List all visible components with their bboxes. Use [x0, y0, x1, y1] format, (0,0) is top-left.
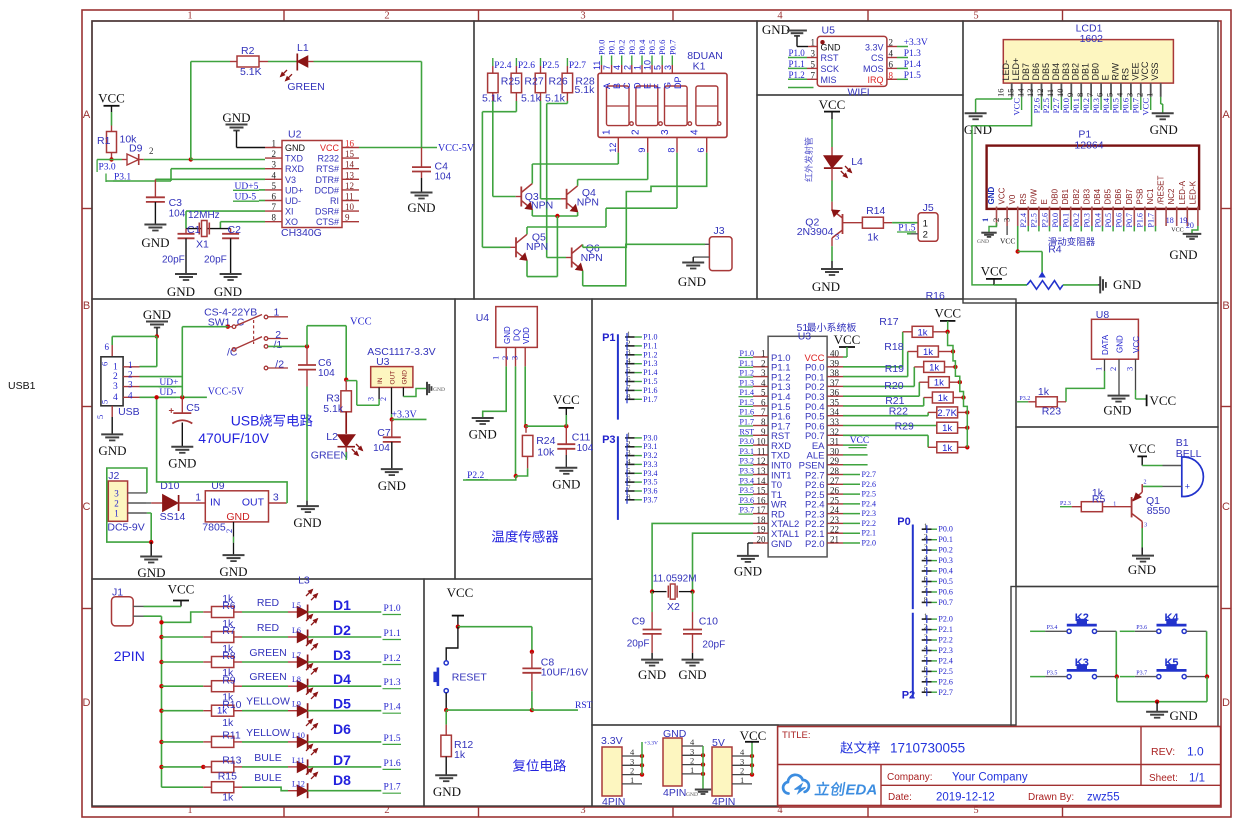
svg-text:P3.3: P3.3 — [643, 460, 657, 469]
svg-text:RS: RS — [1019, 193, 1028, 204]
svg-text:34: 34 — [830, 407, 840, 417]
svg-text:GND: GND — [977, 239, 989, 245]
svg-text:P0.1: P0.1 — [607, 40, 617, 55]
svg-text:DB6: DB6 — [1114, 188, 1123, 204]
svg-text:RED: RED — [257, 622, 280, 634]
svg-text:5: 5 — [95, 415, 105, 419]
svg-text:1602: 1602 — [1080, 33, 1104, 45]
svg-text:5.1K: 5.1K — [240, 66, 262, 78]
svg-text:P0.1: P0.1 — [1071, 98, 1081, 113]
svg-text:RI: RI — [330, 196, 339, 206]
svg-text:GND: GND — [1113, 277, 1141, 292]
svg-text:2: 2 — [272, 149, 277, 159]
svg-text:P0.2: P0.2 — [617, 40, 627, 55]
svg-text:P3.5: P3.5 — [643, 478, 657, 487]
svg-text:GND: GND — [987, 187, 996, 205]
svg-text:A: A — [83, 109, 91, 121]
svg-text:C: C — [1222, 501, 1230, 513]
svg-text:P2.0: P2.0 — [862, 539, 876, 548]
svg-text:P0.3: P0.3 — [1091, 98, 1101, 113]
svg-text:Date:: Date: — [888, 792, 912, 803]
svg-text:OUT: OUT — [242, 497, 265, 509]
svg-text:P0.4: P0.4 — [938, 567, 952, 576]
svg-text:38: 38 — [830, 368, 840, 378]
svg-text:RST: RST — [821, 53, 840, 63]
svg-text:2: 2 — [1108, 367, 1118, 371]
svg-text:DB3: DB3 — [1061, 63, 1071, 81]
svg-text:P0.0: P0.0 — [1061, 98, 1071, 113]
svg-text:VCC: VCC — [1141, 98, 1151, 116]
svg-text:X2: X2 — [667, 601, 680, 613]
svg-text:1k: 1k — [1038, 386, 1050, 398]
svg-text:L6: L6 — [292, 626, 301, 635]
svg-text:C5: C5 — [186, 402, 200, 414]
svg-text:3: 3 — [1001, 218, 1011, 222]
svg-text:DB2: DB2 — [1072, 188, 1081, 204]
svg-text:R7: R7 — [222, 625, 236, 637]
svg-text:P1.3: P1.3 — [643, 359, 657, 368]
svg-text:1k: 1k — [454, 749, 466, 761]
svg-text:24: 24 — [830, 505, 840, 515]
svg-text:GND: GND — [433, 784, 461, 799]
svg-text:P3.7: P3.7 — [1136, 670, 1147, 676]
svg-text:SCK: SCK — [821, 64, 840, 74]
svg-text:DB7: DB7 — [1021, 63, 1031, 81]
svg-text:GND: GND — [222, 110, 250, 125]
svg-text:D1: D1 — [333, 597, 351, 613]
svg-text:4PIN: 4PIN — [602, 796, 625, 808]
svg-text:2N3904: 2N3904 — [797, 226, 834, 238]
svg-text:28: 28 — [830, 466, 840, 476]
svg-text:P0.5: P0.5 — [647, 40, 657, 55]
svg-text:D2: D2 — [333, 622, 351, 638]
svg-text:P2.3: P2.3 — [1060, 501, 1071, 507]
svg-text:R16: R16 — [926, 290, 945, 302]
svg-text:4: 4 — [612, 65, 622, 70]
svg-text:5: 5 — [973, 805, 978, 816]
svg-text:1k: 1k — [867, 232, 879, 244]
svg-text:GND: GND — [771, 539, 792, 550]
svg-text:P0.7: P0.7 — [938, 598, 952, 607]
svg-text:RST: RST — [740, 427, 755, 436]
svg-text:Drawn By:: Drawn By: — [1028, 792, 1074, 803]
svg-text:P2.5: P2.5 — [938, 667, 952, 676]
svg-text:GND: GND — [433, 387, 445, 393]
svg-text:U4: U4 — [476, 312, 490, 324]
svg-text:L11: L11 — [292, 756, 305, 765]
svg-text:104: 104 — [169, 209, 186, 220]
svg-text:MIS: MIS — [821, 75, 837, 85]
svg-text:UD+: UD+ — [285, 185, 303, 195]
svg-text:VCC: VCC — [740, 728, 767, 743]
svg-text:zwz55: zwz55 — [1087, 792, 1120, 804]
svg-text:8: 8 — [761, 417, 766, 427]
svg-text:P2.0: P2.0 — [805, 539, 825, 550]
svg-text:VCC: VCC — [819, 97, 846, 112]
svg-text:R19: R19 — [885, 363, 904, 375]
svg-text:YELLOW: YELLOW — [246, 727, 290, 739]
svg-text:P1.4: P1.4 — [904, 60, 921, 70]
svg-text:1k: 1k — [923, 347, 933, 358]
svg-text:15: 15 — [345, 149, 355, 159]
svg-text:X1: X1 — [196, 239, 209, 251]
svg-text:P1.5: P1.5 — [904, 71, 921, 81]
svg-text:NPN: NPN — [581, 252, 603, 264]
svg-text:4: 4 — [761, 378, 766, 388]
svg-text:J2: J2 — [108, 470, 119, 482]
svg-text:P0.2: P0.2 — [1081, 98, 1091, 113]
svg-text:P1.3: P1.3 — [384, 678, 401, 688]
svg-text:/RESET: /RESET — [1157, 175, 1166, 204]
svg-text:VCC: VCC — [98, 91, 125, 106]
svg-text:P1.7: P1.7 — [643, 395, 657, 404]
svg-text:GND: GND — [168, 456, 196, 471]
svg-text:3: 3 — [1125, 367, 1135, 371]
svg-text:P2.4: P2.4 — [1019, 213, 1028, 227]
svg-text:P1.2: P1.2 — [643, 350, 657, 359]
svg-text:USB1: USB1 — [8, 380, 36, 392]
svg-text:104: 104 — [435, 172, 452, 183]
svg-text:P0.4: P0.4 — [1101, 97, 1111, 113]
svg-text:1: 1 — [690, 765, 694, 775]
svg-text:4PIN: 4PIN — [712, 796, 735, 808]
svg-text:1: 1 — [128, 360, 133, 370]
svg-text:P0.4: P0.4 — [637, 39, 647, 55]
svg-text:3.3V: 3.3V — [865, 42, 884, 52]
svg-text:3: 3 — [660, 129, 671, 135]
svg-text:BULE: BULE — [254, 752, 281, 764]
svg-text:+: + — [169, 406, 175, 417]
svg-text:P1.4: P1.4 — [384, 703, 401, 713]
svg-text:12864: 12864 — [1074, 140, 1103, 152]
svg-text:5.1k: 5.1k — [521, 93, 542, 105]
svg-text:+3.3V: +3.3V — [644, 741, 658, 747]
svg-text:22: 22 — [830, 525, 839, 535]
svg-text:8: 8 — [1075, 93, 1085, 97]
svg-text:5: 5 — [272, 181, 277, 191]
svg-text:37: 37 — [830, 378, 840, 388]
svg-text:DCD#: DCD# — [314, 185, 339, 195]
svg-text:GND: GND — [678, 274, 706, 289]
svg-text:R5: R5 — [1092, 494, 1106, 506]
svg-text:UD-: UD- — [285, 196, 301, 206]
svg-text:V0: V0 — [1008, 194, 1017, 204]
svg-text:15: 15 — [1005, 89, 1015, 98]
svg-text:P0.0: P0.0 — [1051, 213, 1060, 227]
svg-text:P2.7: P2.7 — [862, 470, 876, 479]
svg-text:8: 8 — [272, 213, 277, 223]
svg-text:2: 2 — [224, 529, 234, 533]
svg-text:D6: D6 — [333, 721, 351, 737]
svg-text:P3.3: P3.3 — [740, 467, 754, 476]
svg-text:P1.4: P1.4 — [643, 368, 657, 377]
svg-text:25: 25 — [830, 495, 840, 505]
svg-text:L1: L1 — [297, 42, 309, 54]
svg-text:D: D — [83, 697, 91, 709]
svg-text:9: 9 — [345, 213, 350, 223]
svg-text:1k: 1k — [217, 706, 227, 717]
svg-text:5.1k: 5.1k — [575, 84, 596, 96]
svg-text:2: 2 — [1134, 93, 1144, 97]
svg-text:11: 11 — [592, 61, 602, 70]
svg-text:33: 33 — [830, 417, 840, 427]
svg-text:1: 1 — [811, 38, 816, 48]
svg-text:C: C — [83, 501, 91, 513]
svg-text:GND: GND — [469, 427, 497, 442]
svg-text:3: 3 — [273, 492, 279, 504]
svg-text:13: 13 — [1025, 89, 1035, 98]
svg-text:4: 4 — [113, 393, 118, 403]
svg-text:3: 3 — [811, 49, 816, 59]
svg-text:P2.5: P2.5 — [542, 61, 559, 71]
svg-text:DB0: DB0 — [1091, 63, 1101, 81]
svg-text:6: 6 — [1095, 93, 1105, 97]
svg-text:P1.6: P1.6 — [643, 386, 657, 395]
svg-text:R24: R24 — [536, 435, 555, 447]
svg-text:7: 7 — [602, 65, 612, 70]
svg-text:RST: RST — [575, 701, 593, 711]
svg-text:P1.7: P1.7 — [740, 418, 754, 427]
svg-text:RESET: RESET — [452, 672, 488, 684]
svg-text:GND: GND — [1169, 247, 1197, 262]
svg-text:1k: 1k — [929, 362, 939, 373]
svg-text:D9: D9 — [129, 143, 143, 155]
svg-text:GND: GND — [734, 564, 762, 579]
svg-text:C9: C9 — [632, 616, 646, 628]
svg-text:C10: C10 — [699, 616, 718, 628]
svg-text:16: 16 — [995, 89, 1005, 98]
svg-text:R26: R26 — [549, 76, 568, 88]
svg-text:P0.1: P0.1 — [938, 535, 952, 544]
svg-text:A: A — [1222, 109, 1230, 121]
svg-text:10: 10 — [757, 437, 767, 447]
svg-text:1: 1 — [761, 349, 766, 359]
svg-text:GND: GND — [402, 370, 409, 385]
svg-text:4: 4 — [889, 49, 894, 59]
svg-text:R/W: R/W — [1110, 63, 1120, 81]
svg-text:P0.2: P0.2 — [1072, 213, 1081, 227]
svg-text:P2.6: P2.6 — [1031, 98, 1041, 113]
svg-text:P2.4: P2.4 — [862, 499, 876, 508]
svg-text:UD-: UD- — [159, 388, 176, 398]
svg-text:2: 2 — [923, 230, 928, 241]
svg-text:B: B — [1222, 300, 1229, 312]
svg-text:P2.3: P2.3 — [938, 646, 952, 655]
svg-text:P2.7: P2.7 — [938, 688, 952, 697]
svg-text:C7: C7 — [377, 427, 391, 439]
svg-text:2: 2 — [149, 146, 154, 156]
svg-text:10: 10 — [345, 202, 355, 212]
svg-text:27: 27 — [830, 476, 840, 486]
svg-text:16: 16 — [345, 139, 355, 149]
svg-text:P1.6: P1.6 — [1136, 213, 1145, 227]
svg-text:E: E — [1040, 199, 1049, 204]
svg-text:8: 8 — [889, 70, 894, 80]
svg-text:1k: 1k — [942, 423, 952, 434]
svg-text:DP: DP — [673, 76, 683, 89]
svg-text:GND: GND — [686, 792, 698, 798]
svg-text:VSS: VSS — [1150, 62, 1160, 80]
svg-text:2: 2 — [114, 499, 119, 509]
svg-text:U3: U3 — [798, 331, 812, 343]
svg-text:DB6: DB6 — [1031, 63, 1041, 81]
svg-text:1: 1 — [601, 129, 612, 135]
svg-text:R13: R13 — [222, 755, 241, 767]
svg-text:VCC: VCC — [834, 332, 861, 347]
svg-text:R25: R25 — [501, 76, 520, 88]
svg-text:C1: C1 — [187, 224, 201, 236]
svg-text:IN: IN — [377, 377, 384, 384]
svg-text:21: 21 — [830, 535, 839, 545]
svg-text:1.0: 1.0 — [1187, 745, 1204, 759]
svg-text:GND: GND — [378, 478, 406, 493]
svg-text:6: 6 — [696, 148, 706, 153]
svg-text:VCC: VCC — [320, 143, 340, 153]
svg-text:P3.4: P3.4 — [1047, 625, 1058, 631]
svg-text:K1: K1 — [693, 61, 706, 73]
svg-text:4: 4 — [690, 129, 701, 135]
svg-text:SS14: SS14 — [160, 511, 186, 523]
svg-text:GND: GND — [503, 326, 512, 344]
svg-text:GND: GND — [821, 42, 842, 52]
svg-text:P2.5: P2.5 — [1041, 98, 1051, 113]
svg-text:VCC-5V: VCC-5V — [438, 143, 475, 154]
svg-text:L4: L4 — [851, 156, 863, 168]
svg-text:DB5: DB5 — [1104, 188, 1113, 204]
svg-text:P0.2: P0.2 — [938, 546, 952, 555]
svg-text:VCC: VCC — [350, 317, 372, 328]
svg-text:GND: GND — [1170, 708, 1198, 723]
svg-text:GND: GND — [407, 200, 435, 215]
svg-text:10k: 10k — [537, 446, 555, 458]
svg-text:2: 2 — [1144, 480, 1147, 486]
svg-text:7: 7 — [1085, 93, 1095, 97]
svg-text:1: 1 — [923, 219, 928, 230]
svg-text:2: 2 — [889, 38, 894, 48]
svg-text:12MHz: 12MHz — [188, 210, 220, 221]
svg-text:P3.2: P3.2 — [1019, 396, 1030, 402]
svg-text:U5: U5 — [822, 25, 836, 37]
svg-text:GREEN: GREEN — [311, 450, 348, 462]
svg-text:DB5: DB5 — [1041, 63, 1051, 81]
svg-text:32: 32 — [830, 427, 839, 437]
svg-text:GND: GND — [219, 564, 247, 579]
svg-text:3: 3 — [580, 11, 585, 22]
svg-text:J5: J5 — [923, 202, 934, 214]
svg-text:P1.0: P1.0 — [384, 604, 401, 614]
svg-text:V3: V3 — [285, 175, 296, 185]
svg-text:P0.4: P0.4 — [1093, 213, 1102, 227]
svg-text:EDA: EDA — [846, 782, 878, 799]
svg-text:TITLE:: TITLE: — [782, 730, 811, 741]
svg-text:E: E — [1101, 74, 1111, 80]
svg-text:30: 30 — [830, 446, 840, 456]
svg-text:XI: XI — [285, 207, 294, 217]
svg-text:TXD: TXD — [285, 154, 304, 164]
svg-text:DB4: DB4 — [1093, 188, 1102, 204]
svg-text:P0.6: P0.6 — [1121, 98, 1131, 113]
svg-text:P3.2: P3.2 — [740, 457, 754, 466]
svg-text:GND: GND — [285, 143, 306, 153]
svg-text:20: 20 — [757, 535, 767, 545]
svg-text:USB: USB — [231, 413, 260, 429]
svg-text:26: 26 — [830, 486, 840, 496]
svg-text:DATA: DATA — [1101, 334, 1110, 355]
svg-text:P2.4: P2.4 — [494, 61, 511, 71]
svg-text:YELLOW: YELLOW — [246, 696, 290, 708]
svg-text:29: 29 — [830, 456, 840, 466]
svg-text:470UF/10V: 470UF/10V — [198, 430, 269, 446]
svg-text:6: 6 — [889, 59, 894, 69]
svg-text:11: 11 — [345, 192, 354, 202]
svg-text:20pF: 20pF — [162, 255, 185, 266]
svg-text:RS: RS — [1120, 68, 1130, 81]
svg-text:P3: P3 — [602, 434, 615, 446]
svg-text:/1: /1 — [274, 339, 283, 351]
svg-text:Company:: Company: — [887, 772, 933, 783]
svg-text:WIFI: WIFI — [848, 87, 870, 99]
svg-text:VCC: VCC — [1140, 61, 1150, 81]
svg-text:DB0: DB0 — [1051, 188, 1060, 204]
svg-text:3: 3 — [835, 232, 839, 242]
svg-text:LED-K: LED-K — [1188, 180, 1197, 204]
svg-text:11: 11 — [1045, 89, 1055, 97]
svg-text:GND: GND — [293, 515, 321, 530]
svg-text:DB4: DB4 — [1051, 63, 1061, 81]
svg-text:P1.2: P1.2 — [740, 369, 754, 378]
svg-text:19: 19 — [757, 525, 767, 535]
svg-text:1: 1 — [113, 362, 118, 372]
svg-text:P2.4: P2.4 — [938, 656, 952, 665]
svg-text:P0.0: P0.0 — [938, 525, 952, 534]
svg-text:20pF: 20pF — [702, 640, 725, 651]
svg-text:1k: 1k — [917, 327, 927, 338]
svg-text:1k: 1k — [934, 378, 944, 389]
svg-text:/2: /2 — [275, 359, 284, 371]
svg-text:3: 3 — [128, 380, 133, 390]
svg-text:VCC: VCC — [850, 436, 870, 446]
svg-text:P2.6: P2.6 — [518, 61, 535, 71]
svg-text:2: 2 — [379, 397, 388, 401]
svg-text:9: 9 — [761, 427, 766, 437]
svg-text:12: 12 — [608, 143, 618, 153]
svg-text:7: 7 — [811, 70, 816, 80]
svg-text:GREEN: GREEN — [249, 671, 286, 683]
svg-text:P1.5: P1.5 — [740, 398, 754, 407]
svg-text:VCC: VCC — [1132, 336, 1141, 353]
svg-text:CTS#: CTS# — [316, 217, 339, 227]
svg-text:R14: R14 — [866, 205, 885, 217]
svg-text:12: 12 — [757, 456, 766, 466]
svg-text:P3.6: P3.6 — [643, 487, 657, 496]
svg-text:5: 5 — [973, 11, 978, 22]
svg-text:CH340G: CH340G — [281, 227, 322, 239]
svg-text:2: 2 — [631, 129, 642, 135]
svg-text:39: 39 — [830, 358, 840, 368]
svg-text:16: 16 — [757, 495, 767, 505]
svg-text:9: 9 — [1065, 93, 1075, 97]
svg-text:2PIN: 2PIN — [114, 648, 145, 664]
svg-text:D4: D4 — [333, 671, 351, 687]
svg-text:L12: L12 — [292, 780, 305, 789]
svg-text:DC5-9V: DC5-9V — [107, 522, 144, 534]
svg-text:9: 9 — [637, 148, 647, 153]
svg-text:2019-12-12: 2019-12-12 — [936, 792, 995, 804]
svg-text:P3.2: P3.2 — [643, 451, 657, 460]
svg-text:1/1: 1/1 — [1189, 773, 1205, 785]
svg-text:P3.0: P3.0 — [643, 433, 657, 442]
svg-text:GND: GND — [137, 565, 165, 580]
